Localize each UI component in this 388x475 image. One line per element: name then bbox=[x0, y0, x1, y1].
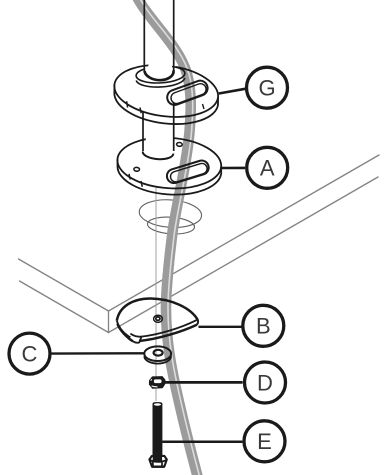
svg-text:B: B bbox=[256, 314, 271, 339]
svg-text:D: D bbox=[257, 370, 273, 395]
svg-text:A: A bbox=[260, 156, 275, 181]
svg-text:E: E bbox=[257, 429, 272, 454]
svg-text:C: C bbox=[22, 341, 38, 366]
svg-text:G: G bbox=[258, 76, 275, 101]
